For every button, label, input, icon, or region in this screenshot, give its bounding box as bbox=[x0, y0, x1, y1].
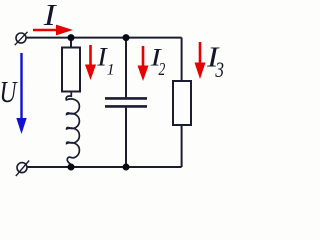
svg-text:2: 2 bbox=[159, 59, 166, 79]
svg-text:3: 3 bbox=[215, 57, 224, 82]
svg-text:U: U bbox=[0, 75, 18, 109]
svg-text:1: 1 bbox=[107, 62, 115, 79]
svg-text:I: I bbox=[43, 0, 58, 32]
